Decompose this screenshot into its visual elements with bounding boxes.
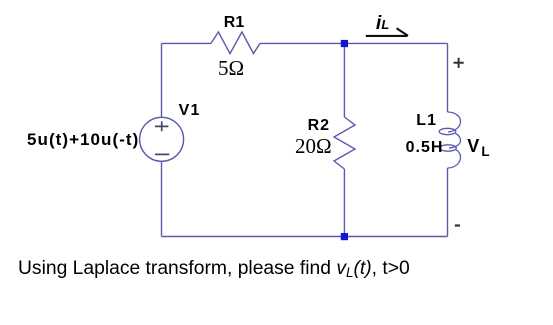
resistor R1 (zigzag) <box>211 32 260 54</box>
wire: bottom horizontal <box>162 236 448 238</box>
minus polarity mark (right) <box>455 224 460 226</box>
plus polarity mark (right) <box>454 58 464 68</box>
label R2 <box>308 117 330 135</box>
V1 plus sign <box>155 121 168 131</box>
wire: right vertical lower (L1 to corner) <box>447 168 449 237</box>
V1 minus sign <box>155 153 169 155</box>
value 5Ω <box>218 56 244 81</box>
wire: left vertical upper (corner to V1 top) <box>161 43 163 117</box>
value 0.5H <box>406 139 444 157</box>
wire: middle vertical lower (R2 to bottom node) <box>343 169 345 237</box>
value 20Ω <box>295 134 332 159</box>
wire: right vertical upper (corner to L1) <box>447 43 449 112</box>
inductor L1 (coil) <box>439 112 460 168</box>
caption text <box>18 258 410 280</box>
label R1 <box>224 14 244 32</box>
voltage source V1 (circle) <box>140 117 184 161</box>
node junction top (blue square) <box>341 40 348 47</box>
resistor R2 (vertical zigzag) <box>334 117 355 169</box>
node label VL <box>467 136 489 160</box>
wire: middle vertical upper (node to R2) <box>343 43 345 117</box>
wire: left vertical lower (V1 bottom to corner) <box>161 161 163 236</box>
current label iL <box>376 12 389 35</box>
label V1 <box>179 102 201 120</box>
source value 5u(t)+10u(-t) <box>27 130 139 150</box>
wire: top-left horizontal (left corner to R1) <box>162 42 212 44</box>
current arrow iL <box>366 28 408 36</box>
node junction bottom (blue square) <box>341 233 348 240</box>
wire: top horizontal (R1 to right corner) <box>260 42 448 44</box>
label L1 <box>416 112 437 130</box>
